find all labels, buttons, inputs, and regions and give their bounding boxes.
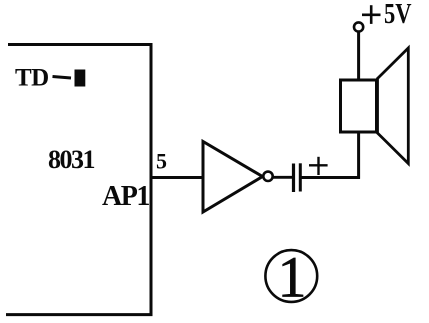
label TD-III	[15, 65, 85, 92]
label +5V plus mark	[362, 5, 381, 24]
wire: branch node up to speaker bottom	[357, 131, 360, 179]
svg-text:AP1: AP1	[102, 181, 149, 212]
capacitor polarity + mark	[309, 157, 328, 175]
svg-text:5: 5	[156, 149, 167, 174]
wire: +5V terminal down to speaker top	[357, 32, 360, 81]
wire: pin 5 from box to inverter input	[150, 176, 204, 179]
svg-text:1: 1	[278, 245, 307, 310]
inverter U2 triangle	[203, 142, 263, 213]
speaker LS1 horn	[378, 48, 409, 164]
capacitor C1 right plate	[299, 163, 302, 191]
speaker LS1 frame	[341, 80, 377, 132]
svg-text:TD: TD	[15, 65, 49, 92]
+5V terminal circle	[354, 22, 363, 31]
inverter output bubble	[263, 172, 272, 181]
figure number circle	[265, 250, 317, 302]
svg-text:8031: 8031	[48, 145, 95, 174]
capacitor C1 left plate	[292, 164, 295, 193]
wire: capacitor to speaker branch node	[302, 176, 361, 179]
wire: bubble to capacitor	[273, 176, 292, 179]
IC box U1 (TD-III 8031 module, left edge clipped)	[6, 45, 151, 315]
svg-text:5V: 5V	[384, 0, 412, 30]
